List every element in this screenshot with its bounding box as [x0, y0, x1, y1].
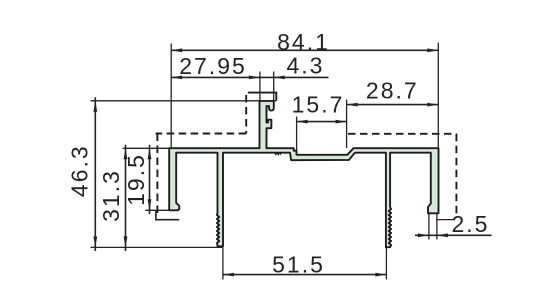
extension line, bottom of 19.5 at left leg foot [145, 209, 171, 211]
svg-text:84.1: 84.1 [277, 29, 330, 55]
arrowheads 51.5 [223, 273, 387, 277]
arrowheads 31.3 [124, 148, 128, 247]
arrowheads 19.5 [148, 148, 152, 210]
knurl serration marks on web underside [274, 153, 282, 155]
arrowheads 2.5 (outside, pointing inward) [418, 233, 448, 237]
step lines below left leg [156, 210, 179, 219]
arrowheads 84.1 [171, 48, 438, 52]
dimension line 46.3 (vertical) [94, 97, 96, 251]
extension line, right of 84.1/28.7 [437, 43, 439, 149]
dimension line 15.7 [297, 121, 347, 123]
dimension line 51.5 [223, 274, 387, 276]
svg-text:15.7: 15.7 [292, 92, 345, 118]
leader line to 2.5 label [437, 219, 454, 221]
extension line, right of 27.95 / left of 4.3 [259, 72, 261, 101]
extension line, bottom of 46.3/31.3 at knurled leg bottom [91, 246, 223, 248]
hidden mating profile, dashed vertical right box [455, 134, 457, 218]
extension line, right of 2.5 [436, 214, 438, 240]
aluminium extrusion profile cross-section (main outline, pale green fill) [169, 101, 438, 247]
svg-text:31.3: 31.3 [98, 169, 124, 222]
extension line, top of 46.3 at glazing leg top [91, 100, 277, 102]
dimension line 31.3 (vertical) [125, 145, 127, 251]
extension line, left of 15.7 [296, 117, 298, 152]
arrowheads 28.7 [347, 103, 439, 107]
arrowheads 15.7 [297, 120, 347, 124]
dimension line 27.95 and 4.3 (collinear) [171, 76, 328, 78]
arrowheads 46.3 [93, 101, 97, 248]
dimension line 84.1 [171, 49, 438, 51]
extension line, right of 4.3 [273, 72, 275, 105]
hidden mating profile, dashed vertical through left leg area [156, 134, 158, 215]
svg-text:28.7: 28.7 [366, 78, 419, 104]
svg-text:19.5: 19.5 [123, 153, 149, 206]
svg-text:51.5: 51.5 [272, 251, 325, 277]
extension line, left of 2.5 [428, 214, 430, 240]
dimension line 2.5 [415, 234, 492, 236]
hidden mating profile, dashed horizontal left box [156, 133, 247, 135]
hidden mating profile, dashed horizontal right box [348, 133, 456, 135]
svg-text:2.5: 2.5 [452, 211, 490, 237]
svg-text:27.95: 27.95 [179, 53, 247, 79]
svg-text:46.3: 46.3 [67, 144, 93, 197]
extension line, right of 15.7 / left of 28.7 [346, 100, 348, 149]
svg-text:4.3: 4.3 [287, 53, 325, 79]
arrowheads 27.95 left, 27.95/4.3 shared, 4.3 right [171, 76, 285, 80]
extension line, right of 51.5 [385, 248, 387, 280]
hidden mating profile, dashed vertical left of glazing leg [245, 95, 247, 134]
extension line, left of 51.5 [222, 247, 224, 279]
extension line, left of 84.1/27.95 [170, 44, 172, 148]
dimension line 28.7 [347, 104, 439, 106]
snap-in cap piece top edge above glazing leg [248, 93, 276, 101]
dimension line 19.5 (vertical) [149, 145, 151, 214]
extension line, top of 31.3/19.5 at web top [123, 147, 170, 149]
